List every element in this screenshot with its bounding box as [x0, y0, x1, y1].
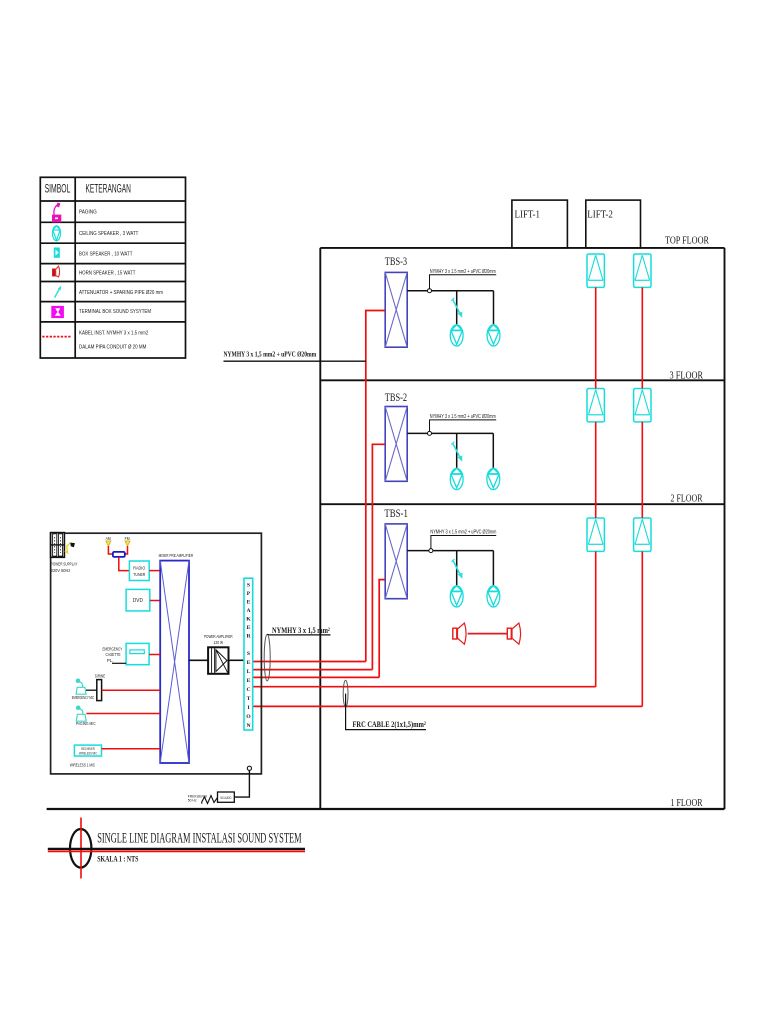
svg-text:SINGLE LINE DIAGRAM INSTALASI: SINGLE LINE DIAGRAM INSTALASI SOUND SYST… [97, 831, 301, 847]
power supply unit [51, 533, 65, 558]
ceiling speaker F1-1 [450, 586, 463, 607]
svg-text:ATTENUATOR + SPARING PIPE Ø20: ATTENUATOR + SPARING PIPE Ø20 mm [79, 290, 163, 296]
svg-text:EMERGENCY MIC: EMERGENCY MIC [72, 695, 94, 700]
svg-text:SKALA 1 : NTS: SKALA 1 : NTS [97, 855, 139, 864]
wire splitter to tuner [119, 557, 130, 571]
emergency casette player [126, 643, 149, 664]
svg-text:TOP FLOOR: TOP FLOOR [665, 235, 709, 247]
svg-text:KABEL INST. NYMHY 3 x 1.5 mm2: KABEL INST. NYMHY 3 x 1.5 mm2 [79, 331, 148, 337]
node on TBS-2 wire [428, 431, 432, 435]
wire tuner to mixer [149, 570, 160, 572]
cable bundle marker 1 [264, 634, 270, 681]
emergency mic [76, 679, 86, 694]
svg-text:WIRELESS 1 MIC: WIRELESS 1 MIC [70, 762, 96, 768]
leader line floor3 label [430, 275, 497, 289]
node on TBS-3 wire [428, 289, 432, 293]
svg-text:TUNER: TUNER [133, 572, 145, 577]
legend ceiling speaker icon [52, 226, 60, 241]
svg-text:LIFT-1: LIFT-1 [515, 209, 541, 221]
svg-text:E: E [247, 625, 251, 631]
wire zone 1 [253, 661, 366, 663]
north symbol circle [70, 829, 91, 868]
legend row labels [79, 210, 163, 351]
1st floor slab line [47, 808, 725, 810]
ceiling speaker F2-2 [487, 468, 500, 489]
lift-1 shaft box [512, 200, 568, 248]
legend attenuator icon [55, 286, 62, 298]
wire mixer to amplifier [189, 659, 208, 661]
main riser label [224, 350, 367, 362]
svg-text:PAGING MIC: PAGING MIC [76, 721, 96, 726]
svg-text:KETERANGAN: KETERANGAN [85, 184, 131, 196]
building outline [320, 248, 724, 809]
title underline red [48, 850, 305, 852]
node on TBS-1 wire [429, 549, 433, 553]
box speaker top floor shaft2 [634, 254, 651, 287]
svg-text:TBS-1: TBS-1 [384, 508, 408, 520]
svg-text:P: P [247, 591, 251, 597]
svg-text:TERMINAL BOX SOUND SYSYTEM: TERMINAL BOX SOUND SYSYTEM [79, 309, 151, 315]
FM antenna [125, 536, 130, 554]
wire casette to mixer [149, 654, 160, 656]
wire receiver to mixer [102, 748, 161, 750]
label FRC CABLE [346, 694, 427, 730]
AM antenna [106, 536, 113, 554]
north symbol red axis [80, 818, 82, 879]
wire paging mic to mixer [86, 713, 160, 715]
ceiling speaker F1-2 [487, 586, 500, 607]
svg-text:LIFT-2: LIFT-2 [587, 209, 613, 221]
power plug symbol [65, 542, 75, 553]
ground wire [234, 770, 249, 797]
grounding box [218, 792, 235, 802]
svg-text:CASETTE: CASETTE [106, 652, 121, 657]
red feeder to TBS-3 [366, 311, 385, 662]
terminal box TBS-1 [385, 524, 407, 599]
box speaker 2nd floor shaft2 [634, 518, 651, 551]
svg-text:E: E [247, 600, 251, 606]
power amplifier [208, 647, 228, 674]
legend header text [45, 184, 131, 196]
svg-text:PAGING: PAGING [79, 210, 97, 216]
ceiling speaker F3-1 [450, 325, 463, 346]
leader line floor1 label [431, 536, 496, 549]
red feeder to TBS-2 [372, 444, 385, 669]
svg-text:HORN SPEAKER , 15 WATT: HORN SPEAKER , 15 WATT [79, 271, 136, 277]
svg-text:S: S [247, 651, 250, 657]
wire text to casette [112, 662, 126, 664]
attenuator floor 2 [451, 442, 462, 462]
wire lift shaft 2 [253, 705, 643, 707]
dvd player [126, 589, 150, 611]
svg-text:PL.: PL. [107, 658, 114, 663]
horn speaker pair floor 1 [453, 623, 521, 644]
wire sirine to mixer [102, 689, 161, 691]
wireless receiver [74, 745, 101, 756]
svg-text:WIRELESS MIC: WIRELESS MIC [79, 752, 97, 756]
wire amplifier to selector [229, 659, 245, 661]
leader line floor2 label [430, 420, 497, 432]
svg-text:RADIO: RADIO [133, 566, 146, 571]
wire TBS-2 to speakers [407, 433, 493, 468]
ground node [247, 766, 251, 770]
power amplifier label [204, 634, 233, 646]
svg-text:FRC CABLE 2(1x1,5)mm²: FRC CABLE 2(1x1,5)mm² [353, 720, 427, 729]
svg-text:3 FLOOR: 3 FLOOR [670, 369, 704, 381]
lift-2 shaft box [586, 200, 641, 248]
radio tuner [129, 561, 149, 581]
svg-text:50 Hz: 50 Hz [188, 799, 197, 803]
wire emergency mic to sirine [86, 689, 97, 691]
red riser shaft 1 [595, 287, 597, 686]
legend table frame [40, 177, 185, 358]
svg-text:K: K [246, 617, 251, 623]
legend paging icon [52, 202, 61, 222]
wire dvd to mixer [150, 600, 160, 602]
svg-text:BOX SPEAKER , 10 WATT: BOX SPEAKER , 10 WATT [79, 251, 133, 257]
svg-text:AM: AM [106, 536, 111, 541]
svg-text:NYMHY 3 x 1.5 mm2 + uPVC Ø20m: NYMHY 3 x 1.5 mm2 + uPVC Ø20mm [430, 269, 496, 275]
terminal box TBS-2 [385, 407, 407, 482]
svg-text:O: O [246, 714, 251, 720]
box speaker 2nd floor shaft1 [587, 518, 604, 551]
svg-text:MIXER PRE AMPLIFIER: MIXER PRE AMPLIFIER [159, 553, 194, 558]
svg-text:L: L [247, 669, 251, 675]
ceiling speaker F2-1 [450, 468, 463, 489]
attenuator floor 1 [452, 559, 463, 579]
ceiling speaker F3-2 [487, 325, 500, 346]
box speaker 3rd floor shaft2 [634, 389, 651, 422]
legend box speaker icon [54, 248, 60, 258]
svg-text:S: S [247, 583, 250, 589]
label NYMHY 3x1,5 [267, 626, 330, 635]
svg-text:1 FLOOR: 1 FLOOR [671, 797, 703, 809]
ground squiggle wire [202, 796, 218, 804]
svg-text:NO AUDIO: NO AUDIO [220, 796, 231, 800]
svg-text:POWER AMPLIFIER: POWER AMPLIFIER [204, 634, 233, 640]
wire lift shaft 1 [253, 686, 596, 688]
sirine connector [97, 680, 102, 701]
svg-text:DALAM PIPA CONDUIT Ø 20 MM: DALAM PIPA CONDUIT Ø 20 MM [79, 345, 147, 351]
svg-text:NYMHY 3 x 1,5 mm2 + uPVC Ø20m: NYMHY 3 x 1,5 mm2 + uPVC Ø20mm [224, 350, 317, 359]
mixer pre amplifier [160, 561, 189, 763]
attenuator floor 3 [451, 298, 462, 318]
wire TBS-3 to speakers [407, 291, 493, 326]
antenna splitter [113, 552, 125, 557]
svg-text:TBS-2: TBS-2 [385, 392, 407, 404]
svg-text:2 FLOOR: 2 FLOOR [671, 493, 703, 505]
box speaker 3rd floor shaft1 [587, 389, 604, 422]
svg-text:DVD: DVD [133, 598, 143, 604]
svg-text:SIMBOL: SIMBOL [45, 184, 71, 196]
label frekuensi [188, 794, 207, 802]
red feeder to TBS-1 [379, 580, 385, 678]
svg-text:NYMHY 3 x 1.5 mm2 + uPVC Ø20m: NYMHY 3 x 1.5 mm2 + uPVC Ø20mm [430, 530, 496, 536]
wire zone 3 [253, 676, 380, 678]
3 floor slab line [320, 379, 724, 381]
cable bundle marker 2 [343, 680, 348, 707]
svg-text:120 W: 120 W [214, 640, 224, 646]
terminal box TBS-3 [385, 272, 407, 347]
emergency casette text [103, 647, 123, 663]
label power supplay [51, 561, 78, 574]
svg-text:TBS-3: TBS-3 [385, 256, 407, 268]
svg-text:EMERGENCY: EMERGENCY [103, 647, 123, 652]
svg-text:E: E [247, 678, 251, 684]
legend horn speaker icon [52, 266, 59, 277]
svg-text:SIRINE: SIRINE [95, 674, 105, 679]
red riser shaft 2 [641, 287, 643, 706]
svg-text:RECHIVER: RECHIVER [81, 747, 95, 751]
speaker selection unit [244, 578, 253, 730]
svg-text:NYMHY 3 x 1.5 mm2 + uPVC Ø20m: NYMHY 3 x 1.5 mm2 + uPVC Ø20mm [430, 414, 496, 420]
svg-text:C: C [246, 687, 250, 693]
svg-text:T: T [247, 696, 251, 702]
legend dashed cable sample [42, 336, 71, 338]
box speaker top floor shaft1 [587, 254, 604, 287]
paging mic [76, 706, 86, 721]
svg-text:POWER SUPPLAY: POWER SUPPLAY [51, 561, 78, 567]
svg-text:FM: FM [125, 536, 130, 541]
legend terminal box icon [51, 306, 64, 318]
svg-text:E: E [247, 660, 251, 666]
rack enclosure [51, 533, 262, 774]
wire TBS-1 to speakers [407, 551, 493, 586]
title underline black [48, 848, 305, 850]
svg-text:CEILING SPEAKER , 3 WATT: CEILING SPEAKER , 3 WATT [79, 231, 139, 237]
svg-text:220V 50Hz: 220V 50Hz [51, 568, 71, 574]
wire zone 2 [253, 669, 373, 671]
svg-text:NYMHY 3 x 1,5 mm²: NYMHY 3 x 1,5 mm² [272, 626, 330, 635]
2 floor slab line [320, 503, 724, 505]
